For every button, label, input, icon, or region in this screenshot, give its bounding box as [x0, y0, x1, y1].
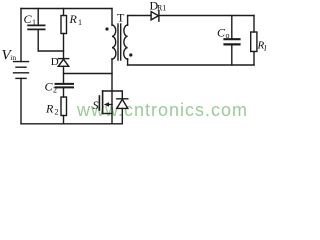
- capacitor C2: [56, 84, 74, 97]
- transistor S right connector: [111, 91, 113, 124]
- transistor S drain stub: [103, 90, 123, 92]
- battery Vin: [14, 62, 29, 79]
- wire bottom rail: [21, 123, 122, 125]
- wire C1-R1 bottom link: [38, 50, 63, 52]
- transistor S body stub with arrow: [108, 104, 112, 106]
- wire secondary top to DR1: [128, 15, 151, 17]
- transformer secondary polarity dot: [129, 53, 132, 56]
- svg-text:T: T: [117, 11, 125, 25]
- transformer primary polarity dot: [105, 27, 108, 30]
- wire battery bottom lead: [20, 78, 22, 123]
- resistor RL: [251, 32, 257, 65]
- transistor S source stub: [103, 113, 112, 115]
- svg-text:2: 2: [55, 108, 59, 117]
- svg-text:R: R: [45, 102, 54, 116]
- svg-text:2: 2: [53, 86, 57, 95]
- wire right edge down to RL: [253, 16, 255, 33]
- svg-text:1: 1: [78, 18, 82, 27]
- wire DR1 to right corner: [159, 15, 254, 17]
- diode DR1: [151, 11, 159, 22]
- diode D: [58, 59, 68, 83]
- wire output bottom rail: [128, 64, 254, 66]
- wire top rail left: [21, 8, 112, 10]
- body diode of S: [117, 91, 128, 124]
- capacitor C1: [28, 9, 44, 52]
- svg-text:1: 1: [32, 18, 36, 27]
- transistor S arrow head: [104, 102, 109, 106]
- transformer T core: [118, 24, 121, 60]
- svg-text:R: R: [69, 12, 78, 26]
- resistor R1: [61, 9, 67, 59]
- transformer T primary winding: [112, 9, 116, 92]
- svg-text:S: S: [93, 98, 99, 112]
- wire snubber tap to drain: [64, 73, 113, 75]
- transistor S channel bar: [102, 91, 104, 114]
- transistor Q1 switch S (MOSFET) gate bar: [98, 96, 100, 110]
- svg-text:D: D: [51, 56, 59, 68]
- transformer T secondary winding: [124, 16, 128, 66]
- wire battery top lead: [20, 9, 22, 62]
- resistor R2: [61, 97, 67, 124]
- svg-text:L: L: [263, 44, 266, 53]
- svg-text:o: o: [226, 31, 230, 40]
- svg-text:R1: R1: [157, 3, 166, 12]
- svg-text:in: in: [10, 53, 16, 62]
- capacitor Co: [225, 16, 240, 66]
